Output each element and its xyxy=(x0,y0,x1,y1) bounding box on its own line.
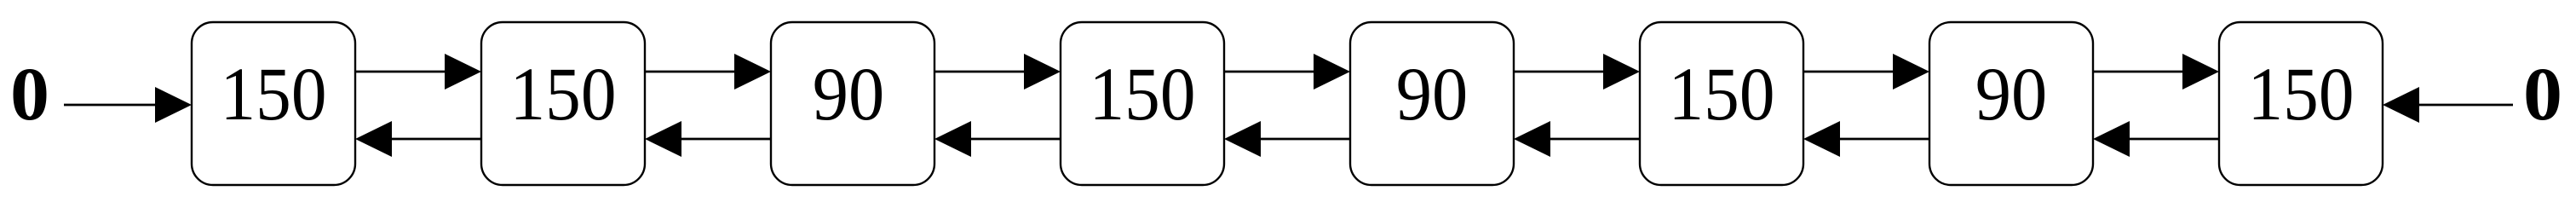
svg-text:150: 150 xyxy=(2248,53,2355,136)
svg-text:90: 90 xyxy=(1975,53,2048,136)
wire: right entry arrow into node N8 xyxy=(2383,87,2513,123)
wire: backward arrow N5 to N4 xyxy=(1224,121,1350,157)
wire: forward arrow N1 to N2 xyxy=(355,54,481,90)
svg-text:150: 150 xyxy=(1090,53,1196,136)
svg-text:0: 0 xyxy=(10,53,49,136)
wire: backward arrow N3 to N2 xyxy=(645,121,771,157)
node N4 (value 150) xyxy=(1061,22,1224,185)
svg-text:0: 0 xyxy=(2523,53,2562,136)
wire: backward arrow N7 to N6 xyxy=(1803,121,1929,157)
node N2 (value 150) xyxy=(481,22,645,185)
wire: backward arrow N2 to N1 xyxy=(355,121,481,157)
wire: left entry arrow into node N1 xyxy=(64,87,192,123)
svg-text:150: 150 xyxy=(1669,53,1775,136)
svg-text:150: 150 xyxy=(510,53,617,136)
wire: backward arrow N6 to N5 xyxy=(1514,121,1640,157)
wire: backward arrow N4 to N3 xyxy=(934,121,1061,157)
wire: forward arrow N4 to N5 xyxy=(1224,54,1350,90)
wire: forward arrow N5 to N6 xyxy=(1514,54,1640,90)
wire: forward arrow N3 to N4 xyxy=(934,54,1061,90)
wire: forward arrow N6 to N7 xyxy=(1803,54,1929,90)
svg-text:90: 90 xyxy=(1396,53,1469,136)
wire: forward arrow N2 to N3 xyxy=(645,54,771,90)
node N1 (value 150) xyxy=(192,22,355,185)
svg-text:150: 150 xyxy=(221,53,327,136)
node N3 (value 90) xyxy=(771,22,934,185)
wire: backward arrow N8 to N7 xyxy=(2093,121,2219,157)
node N6 (value 150) xyxy=(1640,22,1803,185)
svg-text:90: 90 xyxy=(813,53,885,136)
wire: forward arrow N7 to N8 xyxy=(2093,54,2219,90)
node N8 (value 150) xyxy=(2219,22,2383,185)
node N5 (value 90) xyxy=(1350,22,1514,185)
node N7 (value 90) xyxy=(1929,22,2093,185)
